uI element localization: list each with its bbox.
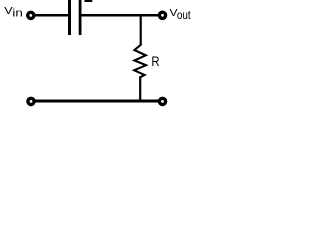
terminal Vout [159, 12, 165, 18]
terminal bottom left [28, 98, 34, 104]
label C (cropped remnant) [85, 0, 93, 2]
node junction top [140, 15, 142, 45]
svg-text:in: in [12, 8, 22, 20]
label Vin [4, 6, 23, 20]
wire resistor to bottom rail [139, 77, 141, 101]
terminal bottom right [159, 98, 165, 104]
label Vout [170, 8, 192, 22]
svg-text:R: R [151, 53, 159, 69]
wire bottom rail [36, 100, 159, 103]
resistor R zigzag [134, 45, 146, 77]
terminal Vin [28, 12, 34, 18]
wire Vin to capacitor [35, 14, 68, 17]
svg-text:out: out [177, 8, 191, 22]
capacitor C1 right plate [79, 0, 82, 35]
capacitor C1 left plate [68, 0, 71, 35]
wire capacitor to Vout [82, 14, 159, 17]
